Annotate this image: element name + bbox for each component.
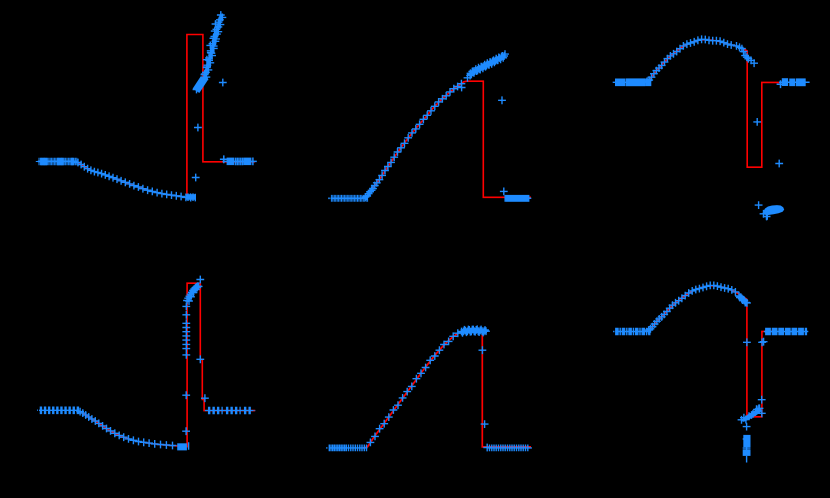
panel 1 model red line (77, 35, 255, 198)
panel 1 steep rise markers (193, 11, 227, 93)
panel 2 left data cluster (331, 195, 369, 202)
panel 5 model red line (363, 329, 531, 448)
panel 2 top band cluster (471, 56, 505, 74)
panel 1 left data cluster (36, 158, 78, 166)
panel 1 right data cluster (220, 155, 257, 165)
panel 5 peak blob (458, 325, 490, 336)
panel 3 bottom outlier blob (755, 201, 771, 220)
panel 3 right data cluster (777, 79, 810, 89)
panel 4 spike data markers (182, 303, 209, 436)
panel 4 model red line (77, 283, 256, 446)
panel 5 left data cluster (326, 445, 367, 452)
panel 6 right data cluster (760, 328, 809, 346)
panel 1 dip data markers (74, 159, 195, 202)
panel 3 bump data markers (643, 35, 758, 85)
panel 6 spike markers (743, 338, 766, 417)
panel 4 spike top blob (183, 276, 204, 305)
panel 2 outlier markers (498, 96, 508, 195)
panel 1 steep rise blob (196, 78, 204, 91)
panel 2 model red line (362, 81, 531, 198)
panel 6 below-spike markers (743, 423, 751, 463)
panel 5 outlier markers (479, 346, 489, 428)
panel 2 right data cluster (506, 195, 530, 202)
panel 6 model red line (646, 286, 777, 417)
panel 4 dip data markers (76, 408, 188, 450)
panel 4 right data cluster (205, 407, 255, 415)
panel 3 left data cluster (613, 79, 651, 87)
panel 6 left data cluster (613, 328, 650, 336)
panel 2 rise data markers (361, 80, 465, 201)
panel 4 left data cluster (37, 407, 79, 415)
panel 1 dip bottom blob (187, 194, 197, 200)
panel 6 bump end blob (735, 292, 751, 307)
panel 5 rise data markers (367, 329, 462, 446)
panel 3 model red line (645, 40, 781, 168)
panel 3 outlier markers (753, 118, 783, 167)
panel 1 outlier markers (192, 79, 227, 182)
panel 5 right data cluster (483, 444, 532, 452)
panel 6 bottom wedge blob (741, 408, 762, 422)
panel 6 bump data markers (645, 282, 740, 335)
panel 4 dip bottom blob (177, 443, 187, 450)
